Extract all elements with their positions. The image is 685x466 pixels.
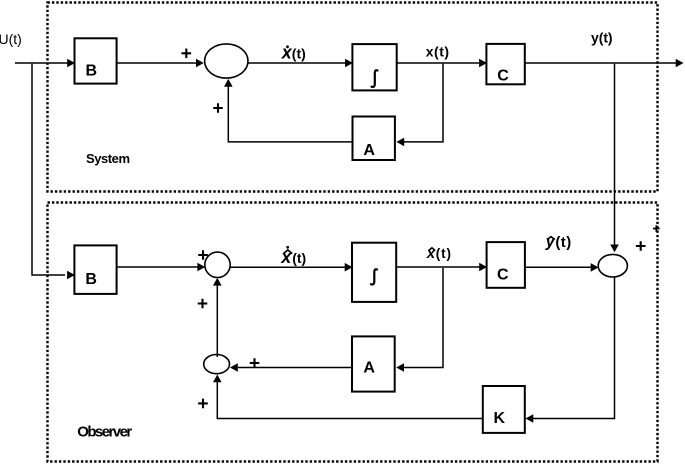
- svg-text:K: K: [494, 410, 506, 427]
- signal label xdot(t): [281, 42, 306, 62]
- svg-text:(t): (t): [292, 45, 306, 61]
- wire S2 to integrator observer: [230, 263, 353, 272]
- wire integrator observer to C observer: [396, 263, 487, 272]
- wire x(t) feedback down to A: [396, 64, 443, 147]
- summing junction S2: [205, 252, 230, 277]
- wire input U(t): [15, 59, 75, 68]
- signal label xhatdot(t): [280, 246, 306, 267]
- svg-text:B: B: [85, 271, 97, 288]
- svg-text:B: B: [86, 63, 98, 80]
- plus sign at S1 input: [182, 49, 192, 59]
- small plus at border: [653, 225, 660, 232]
- svg-text:System: System: [86, 151, 130, 166]
- wire y(t) down to comparator S4: [610, 64, 619, 253]
- wire S3 up to S2: [213, 278, 222, 357]
- wire C to output y(t): [525, 59, 684, 68]
- plus sign at S1 bottom input: [213, 103, 223, 113]
- block B observer: [74, 245, 116, 294]
- wire S1 to integrator: [248, 59, 353, 68]
- wire K to S3: [213, 375, 483, 419]
- svg-text:(t): (t): [436, 246, 451, 261]
- wire xhat feedback down to A observer: [396, 268, 443, 372]
- block C observer: [487, 242, 525, 288]
- block B system: [75, 38, 117, 83]
- wire B to sum S1: [117, 59, 204, 68]
- block C system: [486, 44, 524, 85]
- svg-text:U(t): U(t): [0, 31, 22, 47]
- summing junction S3: [204, 355, 230, 374]
- wire C observer to comparator S4: [525, 263, 599, 272]
- wire A to S1 bottom: [224, 79, 353, 142]
- svg-text:Observer: Observer: [77, 424, 132, 441]
- svg-text:x: x: [426, 245, 436, 262]
- svg-text:x(t): x(t): [426, 43, 449, 59]
- svg-text:A: A: [363, 142, 375, 159]
- system dotted boundary: [48, 3, 658, 192]
- observer dotted boundary: [48, 203, 658, 462]
- wire branch to observer: [32, 64, 75, 280]
- wire integrator to C: [397, 59, 487, 68]
- wire S4 down to K: [526, 277, 615, 423]
- svg-text:C: C: [497, 68, 509, 85]
- block A observer: [352, 336, 395, 391]
- block integrator system: [352, 44, 396, 90]
- block A system: [353, 117, 395, 161]
- plus sign at S2 bottom input: [198, 299, 208, 309]
- svg-text:(t): (t): [292, 250, 306, 266]
- wire B observer to sum S2: [117, 263, 206, 272]
- svg-text:A: A: [363, 360, 375, 377]
- svg-text:x: x: [280, 247, 292, 267]
- plus sign at S3 right input: [250, 358, 260, 368]
- signal label xhat(t): [426, 245, 451, 262]
- svg-text:y(t): y(t): [591, 29, 613, 45]
- block integrator observer: [352, 243, 396, 302]
- plus sign at S4: [636, 241, 646, 251]
- svg-text:y: y: [545, 233, 556, 250]
- svg-text:C: C: [497, 267, 509, 284]
- plus sign at S3 bottom input: [198, 399, 208, 409]
- signal label yhat(t): [545, 233, 571, 251]
- svg-text:(t): (t): [555, 234, 571, 251]
- comparator junction S4: [598, 254, 627, 277]
- block K: [483, 386, 525, 433]
- summing junction S1: [205, 44, 248, 78]
- wire A observer to S3: [230, 363, 352, 372]
- plus sign at S2 left input: [198, 250, 208, 260]
